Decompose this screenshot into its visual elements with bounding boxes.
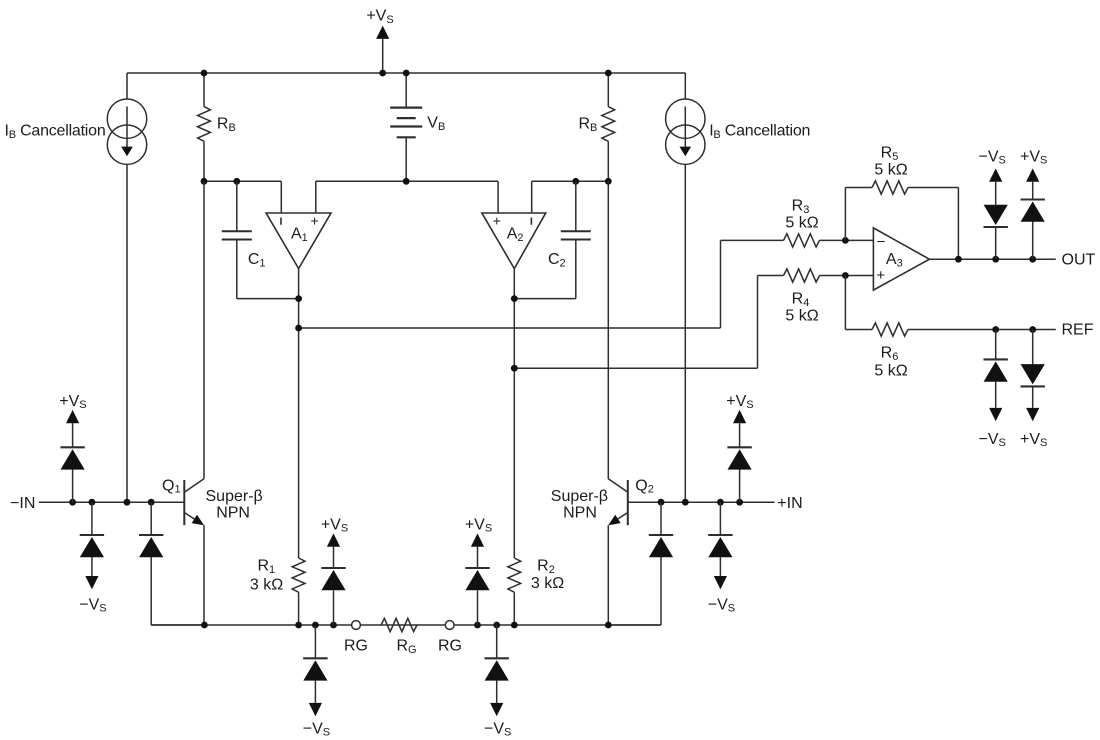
diode clamp OUT to +VS — [1032, 222, 1034, 260]
node OUT feedback junction — [955, 256, 962, 263]
diode rail to -VS (right) — [496, 625, 498, 658]
diode +IN to -VS — [719, 502, 721, 535]
wire A1 plus input to VB node row — [315, 181, 317, 213]
current source I_B cancellation (right) — [666, 99, 705, 138]
node -IN junctions — [69, 499, 76, 506]
wire A2 output column down to bottom rail — [513, 269, 515, 558]
node A1 output / C1 loop — [295, 295, 302, 302]
diode clamp REF to +VS — [1032, 330, 1034, 365]
svg-text:RG: RG — [438, 638, 462, 655]
resistor RB (right) — [607, 73, 609, 107]
op-amp A1 — [266, 213, 331, 269]
wire A1 output column down to bottom rail — [298, 269, 300, 558]
svg-text:+: + — [311, 213, 319, 229]
diode rail to +VS (left) — [333, 591, 335, 626]
wire A2 plus input drop — [497, 181, 499, 213]
wire bottom rail — [151, 624, 351, 626]
diode rail to -VS (left) — [314, 625, 316, 658]
svg-text:Super-β: Super-β — [551, 488, 608, 505]
node R3 / R5 junction — [842, 237, 849, 244]
svg-text:+: + — [493, 213, 501, 229]
svg-text:3 kΩ: 3 kΩ — [250, 577, 283, 594]
wire C2 to A2 output — [514, 298, 576, 300]
capacitor C2 — [575, 181, 577, 231]
wire Q2 collector up to RB node — [607, 181, 609, 478]
svg-text:3 kΩ: 3 kΩ — [531, 575, 564, 592]
+VS supply arrow (top) — [382, 39, 384, 73]
diode -IN column to bottom rail — [150, 502, 152, 535]
transistor Q2 super-beta NPN — [627, 480, 629, 525]
resistor RG (external) — [381, 618, 417, 631]
wire A1 output bus to R3 — [299, 327, 721, 329]
wire right current source to rail — [684, 73, 686, 99]
current source I_B cancellation (left) — [107, 99, 146, 138]
svg-text:+: + — [876, 267, 885, 284]
diode +IN column to bottom rail — [660, 502, 662, 535]
svg-text:Super-β: Super-β — [206, 488, 263, 505]
resistor R6 5k to REF — [844, 276, 846, 330]
node R4 / R6 junction — [842, 272, 849, 279]
op-amp A2 — [482, 213, 546, 269]
diode clamp OUT to -VS — [995, 227, 997, 259]
wire left current source to rail — [126, 73, 128, 99]
resistor RB (left) — [203, 73, 205, 107]
resistor R2 3k — [508, 558, 521, 592]
wire A2 output bus to R4 — [514, 367, 757, 369]
wire left current source down to -IN node — [126, 164, 128, 502]
node rail junction dots — [201, 70, 208, 77]
svg-text:+IN: +IN — [777, 495, 802, 512]
transistor Q1 super-beta NPN — [183, 480, 185, 525]
diode +IN to +VS — [739, 469, 741, 502]
wire top supply rail — [127, 72, 685, 74]
terminal RG (left) — [352, 621, 361, 630]
wire right current source down to +IN node — [684, 164, 686, 502]
node bottom rail junctions — [201, 622, 208, 629]
wire Q1 collector up to RB node — [203, 181, 205, 478]
resistor R1 3k — [292, 558, 305, 592]
diode rail to +VS (right) — [477, 591, 479, 626]
svg-text:IB Cancellation: IB Cancellation — [5, 123, 106, 141]
wire node row left (RB to A1 minus input) — [204, 180, 281, 182]
svg-text:5 kΩ: 5 kΩ — [874, 363, 907, 380]
diode -IN to +VS — [72, 469, 74, 502]
wire C1 to A1 output — [237, 298, 299, 300]
svg-text:RG: RG — [344, 638, 368, 655]
svg-text:5 kΩ: 5 kΩ — [785, 215, 818, 232]
svg-text:REF: REF — [1062, 322, 1094, 339]
node A2 output / C2 loop — [511, 295, 518, 302]
resistor R4 5k — [758, 275, 784, 277]
capacitor C1 — [236, 181, 238, 231]
node OUT clamp junction 2 — [1029, 256, 1036, 263]
wire Q1 emitter down to rail — [203, 525, 205, 625]
svg-text:IB Cancellation: IB Cancellation — [709, 123, 810, 141]
op-amp A3 — [873, 228, 929, 290]
wire +IN row — [628, 501, 775, 503]
node OUT clamp junction 1 — [992, 256, 999, 263]
svg-text:−IN: −IN — [10, 495, 35, 512]
resistor R3 5k — [721, 239, 784, 241]
svg-text:5 kΩ: 5 kΩ — [785, 308, 818, 325]
svg-text:OUT: OUT — [1062, 252, 1096, 269]
svg-text:5 kΩ: 5 kΩ — [874, 162, 907, 179]
diode clamp REF to -VS — [995, 330, 997, 360]
wire Q2 emitter down to rail — [607, 525, 609, 625]
wire -IN row — [39, 501, 184, 503]
node REF clamp junction 2 — [1029, 326, 1036, 333]
node +IN junctions — [658, 499, 665, 506]
diode -IN to -VS — [91, 502, 93, 535]
resistor R5 5k feedback — [844, 188, 846, 241]
svg-text:−: − — [877, 234, 886, 251]
svg-text:NPN: NPN — [216, 504, 250, 521]
node dots on mid row — [201, 178, 208, 185]
battery VB — [405, 73, 407, 108]
wire A2 minus input to RB right — [531, 181, 533, 213]
wire bottom-right corner to rail — [608, 624, 661, 626]
wire bottom-left corner to rail — [151, 624, 204, 626]
node REF clamp junction 1 — [992, 326, 999, 333]
wire A3 output to OUT — [929, 258, 1055, 260]
svg-text:NPN: NPN — [563, 504, 597, 521]
terminal RG (right) — [445, 621, 454, 630]
